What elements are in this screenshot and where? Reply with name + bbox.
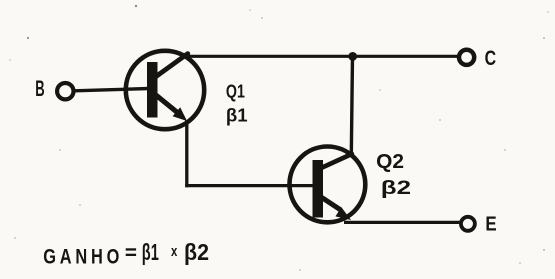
terminal B [57, 83, 73, 99]
svg-text:β1: β1 [226, 106, 248, 126]
svg-text:β2: β2 [184, 239, 209, 265]
svg-text:GANHO: GANHO [43, 245, 123, 269]
wire junction to Q2 collector [351, 56, 352, 155]
wire Q2 emitter to E [344, 221, 461, 224]
svg-text:β1: β1 [142, 239, 159, 265]
node junction [348, 52, 357, 61]
transistor Q1 [126, 51, 204, 129]
terminal C [459, 50, 474, 65]
svg-text:B: B [35, 76, 44, 101]
svg-text:Q2: Q2 [376, 151, 404, 173]
label GANHO formula [43, 239, 209, 269]
svg-text:x: x [171, 244, 177, 260]
svg-text:β2: β2 [381, 177, 411, 199]
transistor Q2 [290, 147, 366, 223]
svg-text:E: E [485, 213, 496, 235]
wire Q1 collector to C [187, 55, 460, 58]
svg-text:C: C [485, 46, 497, 70]
wire to Q2 base [185, 184, 314, 187]
wire Q1 emitter down [185, 120, 188, 187]
wire base B to Q1 [75, 89, 150, 91]
svg-text:Q1: Q1 [226, 82, 245, 102]
terminal E [461, 217, 475, 231]
